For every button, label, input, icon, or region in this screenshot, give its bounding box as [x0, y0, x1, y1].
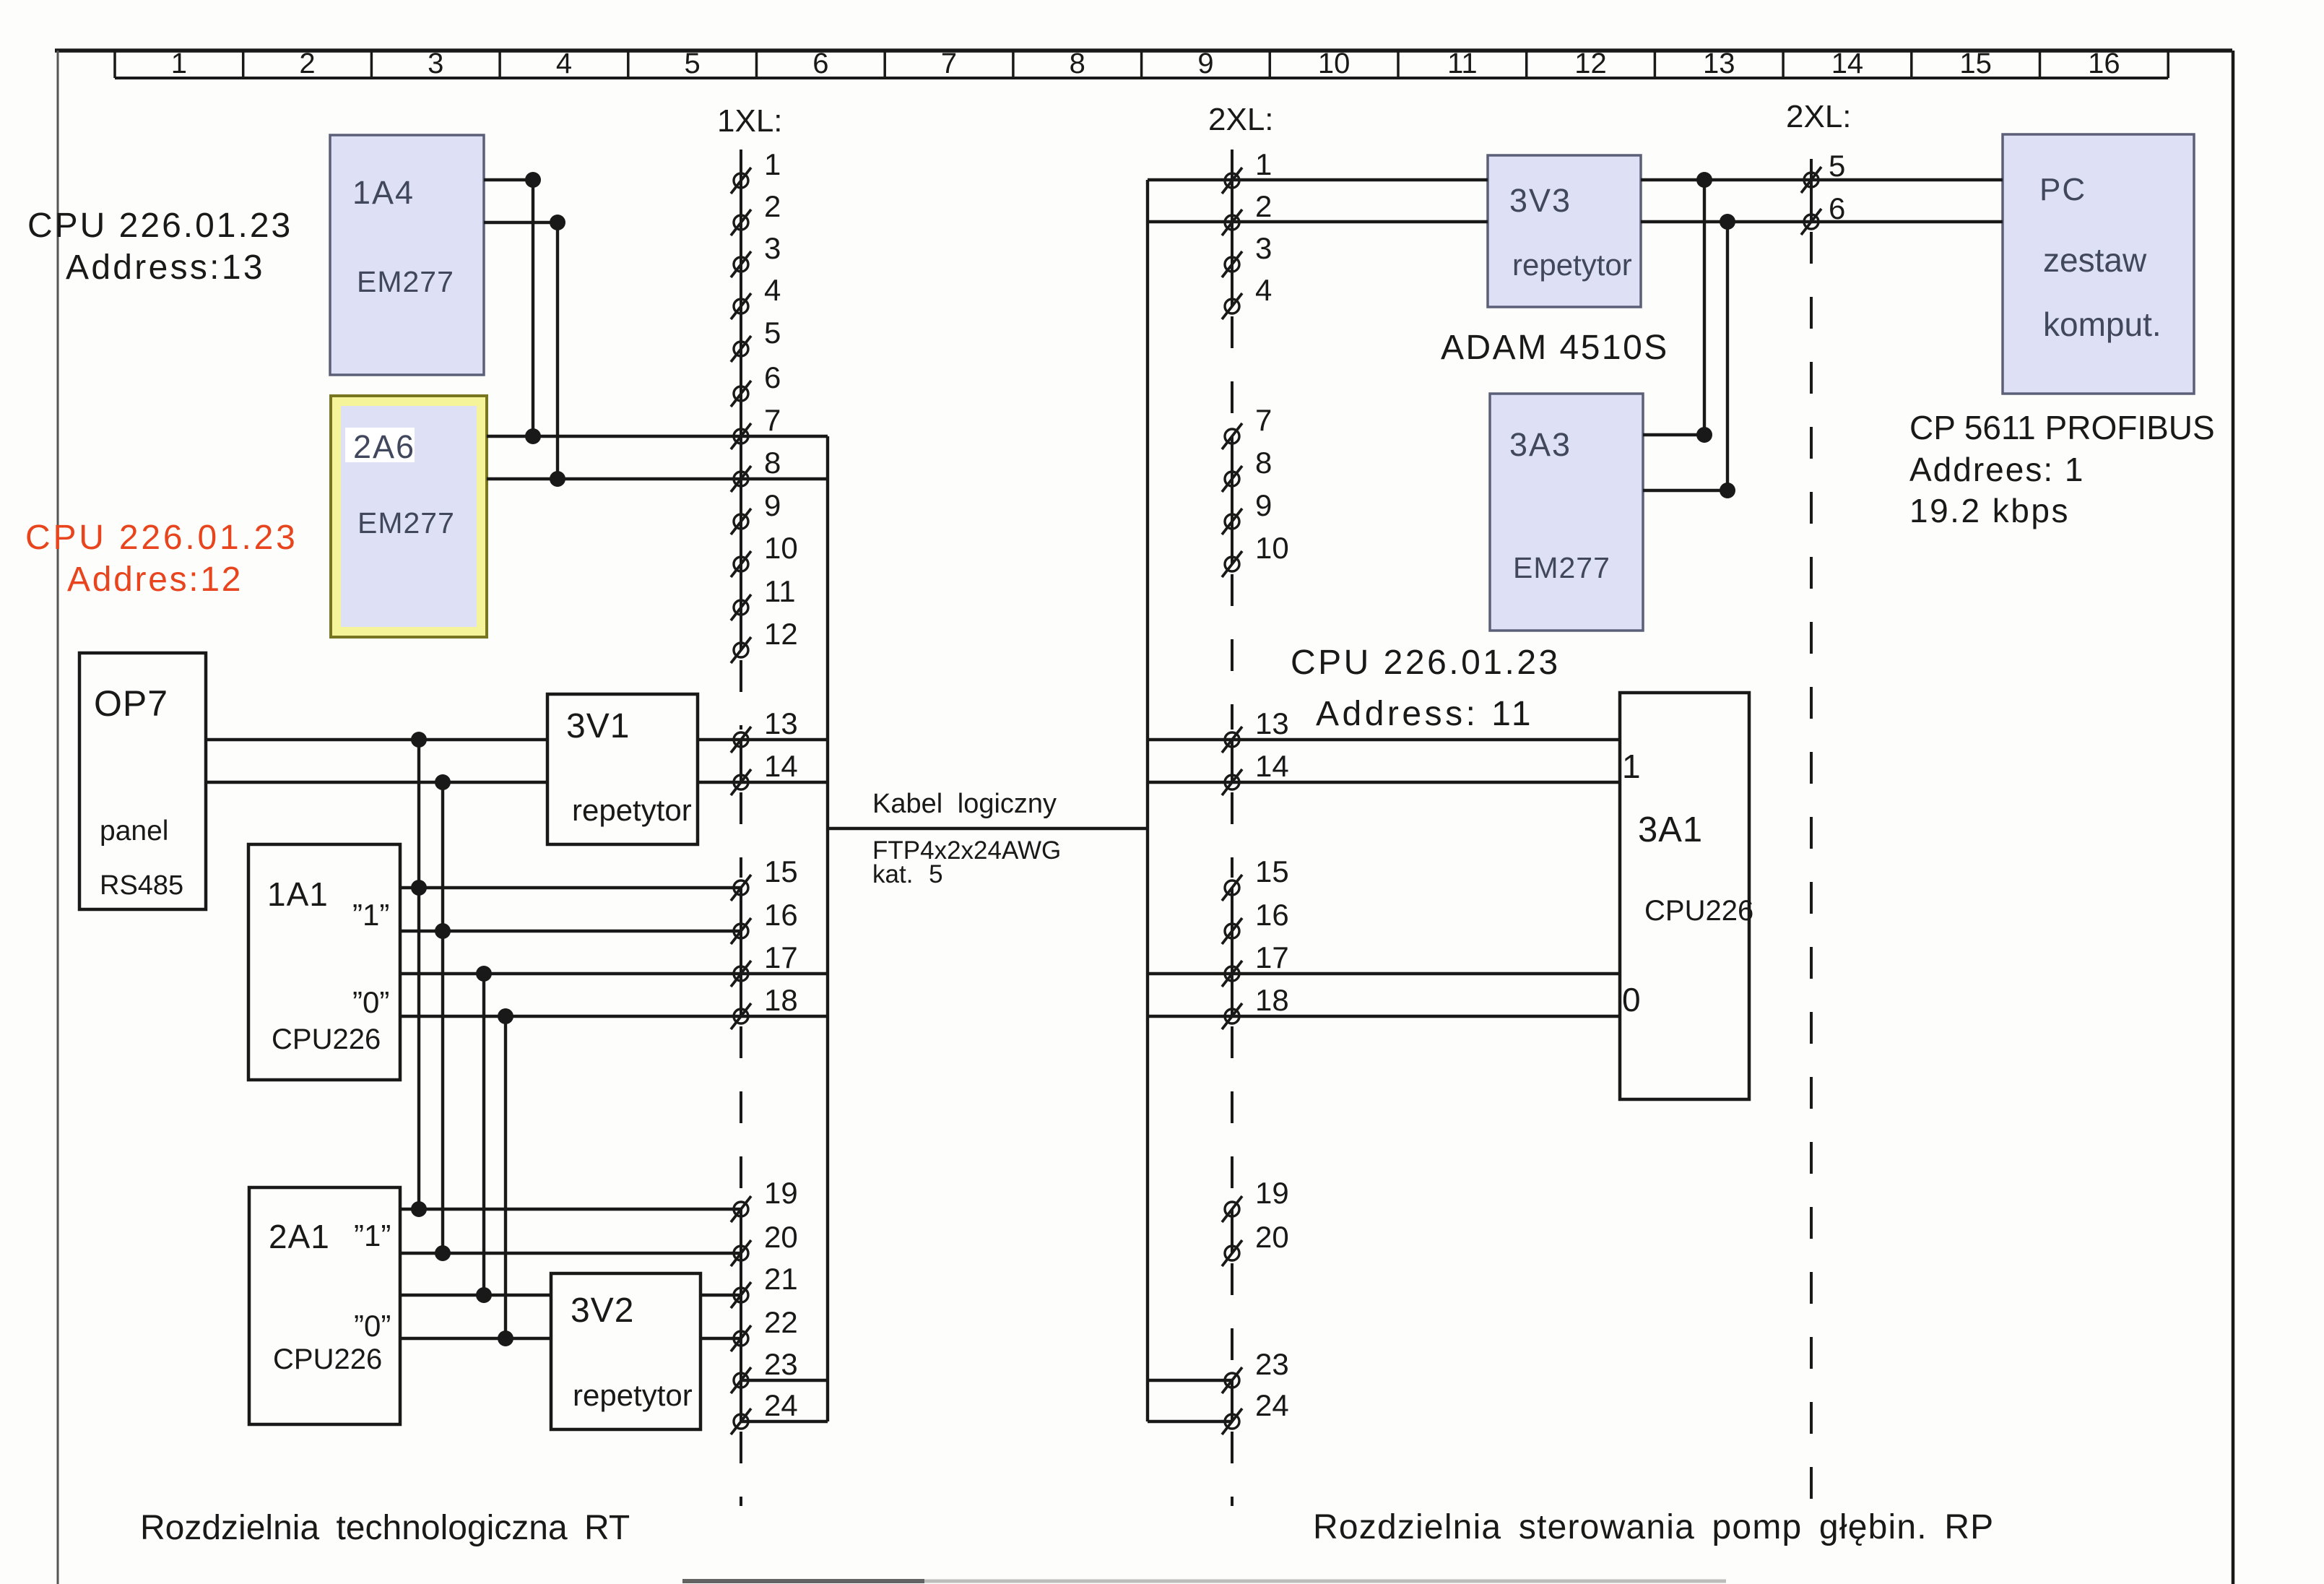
label CPU 226.01.23 Addres:12 (red) — [25, 519, 298, 599]
svg-text:5: 5 — [685, 48, 701, 79]
svg-text:16: 16 — [1255, 898, 1289, 932]
svg-text:CP 5611 PROFIBUS: CP 5611 PROFIBUS — [1909, 409, 2215, 446]
svg-text:1: 1 — [1622, 748, 1641, 785]
label CPU 226.01.23 Address: 11 — [1291, 644, 1561, 733]
svg-text:”1”: ”1” — [354, 1219, 391, 1252]
bus RP vertical — [1146, 180, 1149, 1421]
svg-text:10: 10 — [1318, 48, 1350, 79]
wire 3V2 out to terminal 22 — [701, 1337, 741, 1340]
svg-text:1: 1 — [171, 48, 187, 79]
wire kabel logiczny link — [828, 827, 1148, 830]
repeater 3V3 (ADAM 4510S) — [1488, 155, 1641, 307]
wire vertical OP7-B to row 20 — [441, 782, 444, 1253]
wire bus to terminal 23 right — [1148, 1379, 1232, 1382]
svg-text:3A1: 3A1 — [1638, 810, 1703, 849]
svg-text:0: 0 — [1622, 981, 1641, 1018]
svg-text:Address:13: Address:13 — [66, 248, 265, 287]
svg-text:7: 7 — [1255, 403, 1272, 437]
svg-text:17: 17 — [1255, 940, 1289, 974]
node row8 junction — [550, 471, 565, 487]
svg-text:CPU 226.01.23: CPU 226.01.23 — [25, 519, 298, 557]
svg-text:13: 13 — [1703, 48, 1735, 79]
node 3A3-B junction — [1720, 482, 1735, 498]
svg-text:4: 4 — [764, 273, 781, 307]
svg-text:20: 20 — [1255, 1220, 1289, 1254]
wire 1A4 pin B to node — [484, 221, 558, 224]
svg-text:12: 12 — [1574, 48, 1607, 79]
svg-text:EM277: EM277 — [1513, 551, 1610, 584]
svg-text:1XL:: 1XL: — [717, 103, 783, 139]
svg-text:10: 10 — [1255, 531, 1289, 565]
svg-text:1A4: 1A4 — [352, 174, 415, 211]
svg-text:2: 2 — [764, 189, 781, 223]
repeater 3V1 — [547, 694, 698, 844]
wire OP7 line B to 3V1 — [206, 781, 547, 784]
wire 3V3 to PC row1 — [1641, 178, 2003, 181]
svg-text:23: 23 — [764, 1347, 798, 1381]
svg-text:17: 17 — [764, 940, 798, 974]
svg-text:2: 2 — [1255, 189, 1272, 223]
node 3A3-A junction — [1696, 427, 1712, 443]
wire 1A1 '0'b to terminal 18 and bus — [400, 1015, 828, 1018]
svg-text:5: 5 — [1829, 149, 1845, 183]
panel OP7 RS485 — [79, 653, 206, 909]
node 1A4-B junction — [550, 215, 565, 230]
wire bus to 3A1 via terminal 17 — [1148, 972, 1620, 975]
svg-text:”0”: ”0” — [354, 1309, 391, 1343]
svg-text:22: 22 — [764, 1305, 798, 1339]
svg-text:EM277: EM277 — [357, 265, 454, 298]
wire bus to 3V3 row1 — [1148, 178, 1488, 181]
svg-text:1A1: 1A1 — [267, 875, 329, 913]
bottom partial frame line — [682, 1579, 1726, 1583]
label Rozdzielnia technologiczna RT — [140, 1509, 630, 1547]
svg-text:panel: panel — [100, 815, 168, 847]
wire vertical row18 to row 22 — [504, 1016, 507, 1338]
svg-text:13: 13 — [1255, 706, 1289, 740]
repeater 3V2 — [551, 1273, 701, 1429]
svg-text:CPU226: CPU226 — [272, 1023, 381, 1055]
wire 3V2 out to terminal 21 — [701, 1294, 741, 1297]
wire 3A3 out A — [1643, 433, 1704, 436]
svg-text:Rozdzielnia technologiczna R: Rozdzielnia technologiczna RT — [140, 1509, 630, 1547]
cpu 3A1 CPU226 — [1620, 693, 1753, 1099]
svg-text:Rozdzielnia sterowania pomp: Rozdzielnia sterowania pomp głębin. RP — [1313, 1508, 1994, 1546]
wire 1A1 '0'a to terminal 17 and bus — [400, 972, 828, 975]
wire vertical OP7-A to row 19 — [417, 740, 420, 1209]
wire bus to 3A1 pin1 via terminal 13 — [1148, 738, 1620, 741]
label Rozdzielnia sterowania pomp glebin. RP — [1313, 1508, 1994, 1546]
svg-text:2A1: 2A1 — [269, 1218, 330, 1255]
wire 3V3 to PC row2 — [1641, 220, 2003, 223]
node 3V3-B junction — [1720, 214, 1735, 230]
wire bus to 3V3 row2 — [1148, 220, 1488, 223]
svg-text:3V2: 3V2 — [571, 1291, 634, 1330]
svg-text:8: 8 — [1070, 48, 1085, 79]
svg-text:15: 15 — [1959, 48, 1992, 79]
svg-text:14: 14 — [1831, 48, 1864, 79]
wire 2A1 '0'b to 3V2 — [400, 1337, 551, 1340]
wire 3A3 out B — [1643, 489, 1727, 492]
wire 2A6 to terminal 7 and bus — [487, 435, 828, 438]
svg-text:”1”: ”1” — [352, 898, 389, 932]
svg-text:repetytor: repetytor — [1512, 248, 1632, 282]
svg-text:24: 24 — [1255, 1388, 1289, 1422]
svg-text:repetytor: repetytor — [573, 1378, 693, 1412]
svg-text:3A3: 3A3 — [1509, 426, 1571, 463]
wire 2A1 '1'a to terminal 19 — [400, 1208, 741, 1211]
wire 1A4 pin A to node — [484, 178, 533, 181]
node 21 junction — [476, 1287, 492, 1303]
wire vertical down to 3A3 B — [1726, 222, 1729, 490]
svg-text:repetytor: repetytor — [572, 793, 692, 827]
wire bus to 3A1 via terminal 14 — [1148, 781, 1620, 784]
svg-text:13: 13 — [764, 706, 798, 740]
svg-text:7: 7 — [764, 403, 781, 437]
svg-text:PC: PC — [2039, 172, 2086, 207]
svg-text:7: 7 — [941, 48, 957, 79]
wire vertical down to 3A3 A — [1703, 180, 1706, 435]
svg-text:ADAM 4510S: ADAM 4510S — [1441, 329, 1669, 367]
svg-text:”0”: ”0” — [352, 985, 389, 1019]
svg-text:19: 19 — [1255, 1176, 1289, 1210]
svg-text:Addrees: 1: Addrees: 1 — [1909, 451, 2084, 488]
terminal strip 1XL (terminals 1-24) — [731, 147, 798, 1506]
svg-text:9: 9 — [764, 488, 781, 522]
svg-text:2XL:: 2XL: — [1208, 102, 1274, 137]
node 15 junction — [411, 880, 427, 896]
label 2XL: (right) — [1786, 99, 1852, 134]
svg-text:EM277: EM277 — [357, 506, 455, 540]
wire bus to terminal 24 right — [1148, 1420, 1232, 1423]
svg-text:CPU226: CPU226 — [273, 1343, 382, 1375]
node OP7-B junction — [435, 774, 451, 790]
module 1A4 EM277 — [330, 135, 484, 375]
svg-text:8: 8 — [764, 446, 781, 480]
svg-text:15: 15 — [764, 854, 798, 888]
node 22 junction — [498, 1330, 513, 1346]
wire OP7 line A to 3V1 — [206, 738, 547, 741]
node 17 junction — [476, 966, 492, 982]
label 1XL: — [717, 103, 783, 139]
wire 2A1 '1'b to terminal 20 — [400, 1252, 741, 1255]
svg-text:kat. 5: kat. 5 — [872, 860, 943, 888]
svg-text:1: 1 — [764, 147, 781, 181]
svg-text:12: 12 — [764, 617, 798, 651]
svg-text:CPU226: CPU226 — [1644, 895, 1753, 927]
svg-text:5: 5 — [764, 316, 781, 350]
svg-text:11: 11 — [764, 574, 796, 608]
svg-text:20: 20 — [764, 1220, 798, 1254]
svg-text:2: 2 — [299, 48, 315, 79]
wire 2A6 to terminal 8 and bus — [487, 477, 828, 480]
wire vertical row17 to row 21 — [482, 974, 485, 1295]
label 2XL: (left) — [1208, 102, 1274, 137]
node 18 junction — [498, 1008, 513, 1024]
wire 1A1 '1'a to terminal 15 — [400, 886, 741, 889]
svg-text:19.2 kbps: 19.2 kbps — [1909, 492, 2070, 529]
wire 3V1 out to terminal 13 and bus — [698, 738, 828, 741]
wire 3V1 out to terminal 14 and bus — [698, 781, 828, 784]
module 3A3 EM277 — [1490, 394, 1643, 631]
svg-text:16: 16 — [764, 898, 798, 932]
wire terminal 23 to bus — [741, 1379, 828, 1382]
svg-text:OP7: OP7 — [94, 683, 168, 724]
label CP 5611 PROFIBUS — [1909, 409, 2215, 529]
svg-text:CPU 226.01.23: CPU 226.01.23 — [27, 207, 292, 245]
svg-text:6: 6 — [812, 48, 828, 79]
svg-text:2A6: 2A6 — [353, 428, 415, 465]
svg-text:21: 21 — [764, 1262, 798, 1296]
svg-text:18: 18 — [764, 983, 798, 1017]
svg-text:2XL:: 2XL: — [1786, 99, 1852, 134]
svg-text:15: 15 — [1255, 854, 1289, 888]
svg-text:8: 8 — [1255, 446, 1272, 480]
wire node A down to row7 — [532, 180, 534, 436]
svg-text:4: 4 — [556, 48, 572, 79]
svg-text:9: 9 — [1197, 48, 1213, 79]
svg-text:4: 4 — [1255, 273, 1272, 307]
cpu 1A1 — [248, 844, 400, 1080]
svg-text:11: 11 — [1447, 48, 1478, 79]
pc box (zestaw komputerowy) — [2003, 134, 2194, 394]
svg-text:6: 6 — [764, 360, 781, 394]
terminal strip 2XL left part (terminals 1-4,7-10,13-20,23,24) — [1222, 147, 1289, 1506]
svg-text:18: 18 — [1255, 983, 1289, 1017]
wire 1A1 '1'b to terminal 16 — [400, 930, 741, 932]
svg-text:3: 3 — [1255, 231, 1272, 265]
svg-text:23: 23 — [1255, 1347, 1289, 1381]
wire bus to 3A1 pin0 via terminal 18 — [1148, 1015, 1620, 1018]
label CPU 226.01.23 Address:13 — [27, 207, 292, 287]
svg-text:Address: 11: Address: 11 — [1316, 695, 1534, 733]
svg-text:24: 24 — [764, 1388, 798, 1422]
wire 2A1 '0'a to 3V2 — [400, 1294, 551, 1297]
svg-text:14: 14 — [1255, 749, 1289, 783]
svg-text:14: 14 — [764, 749, 798, 783]
svg-text:CPU 226.01.23: CPU 226.01.23 — [1291, 644, 1561, 682]
svg-text:3V1: 3V1 — [566, 707, 630, 745]
node OP7-A junction — [411, 732, 427, 748]
ruler scale row 1-16 — [115, 48, 2168, 79]
bus RT vertical — [826, 436, 829, 1421]
node 20 junction — [435, 1245, 451, 1261]
node 16 junction — [435, 923, 451, 939]
label kabel logiczny — [872, 789, 1061, 888]
node row7 junction — [525, 428, 541, 444]
svg-text:1: 1 — [1255, 147, 1272, 181]
svg-text:Addres:12: Addres:12 — [67, 561, 243, 599]
svg-text:zestaw: zestaw — [2043, 241, 2147, 279]
svg-text:16: 16 — [2088, 48, 2120, 79]
wire node B down to row8 — [556, 222, 559, 479]
terminal strip 2XL right part (terminals 5,6) — [1801, 149, 1845, 1499]
node 19 junction — [411, 1201, 427, 1217]
svg-text:9: 9 — [1255, 488, 1272, 522]
svg-text:komput.: komput. — [2043, 306, 2162, 343]
svg-text:19: 19 — [764, 1176, 798, 1210]
module 2A6 EM277 (highlighted) — [331, 396, 487, 637]
cpu 2A1 — [249, 1187, 400, 1424]
svg-text:10: 10 — [764, 531, 798, 565]
wire terminal 24 to bus — [741, 1420, 828, 1423]
svg-text:RS485: RS485 — [100, 870, 183, 901]
label ADAM 4510S — [1441, 329, 1669, 367]
svg-text:Kabel logiczny: Kabel logiczny — [872, 789, 1057, 819]
svg-text:6: 6 — [1829, 191, 1845, 225]
svg-text:3V3: 3V3 — [1509, 182, 1571, 219]
node 3V3-A junction — [1696, 172, 1712, 188]
node 1A4-A junction — [525, 172, 541, 188]
svg-text:3: 3 — [764, 231, 781, 265]
svg-text:3: 3 — [428, 48, 443, 79]
